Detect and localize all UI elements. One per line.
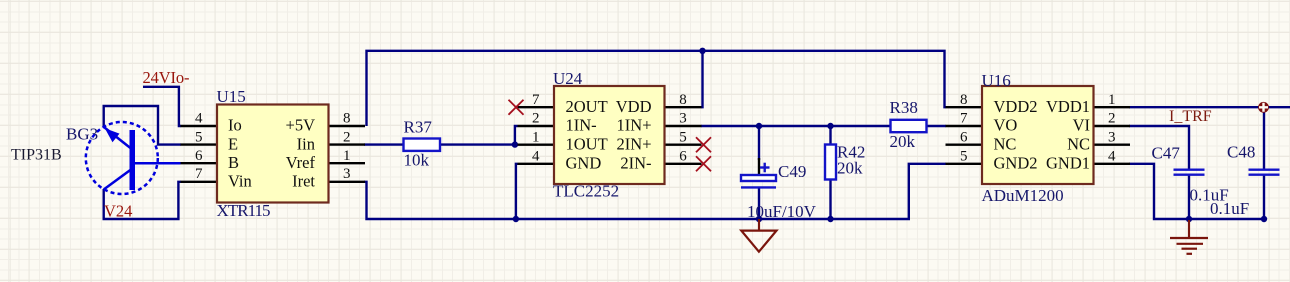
svg-text:2: 2 bbox=[1108, 111, 1116, 127]
svg-text:Vref: Vref bbox=[286, 153, 316, 172]
svg-text:+5V: +5V bbox=[286, 116, 316, 135]
svg-text:2: 2 bbox=[343, 129, 351, 145]
svg-text:10k: 10k bbox=[404, 151, 430, 170]
svg-text:B: B bbox=[228, 153, 239, 172]
svg-text:20k: 20k bbox=[890, 132, 916, 151]
svg-text:1: 1 bbox=[532, 129, 540, 145]
svg-text:6: 6 bbox=[195, 148, 203, 164]
svg-text:GND2: GND2 bbox=[994, 154, 1038, 173]
svg-text:GND: GND bbox=[566, 154, 602, 173]
svg-text:8: 8 bbox=[679, 92, 687, 108]
svg-text:ADuM1200: ADuM1200 bbox=[982, 186, 1064, 205]
svg-text:U15: U15 bbox=[217, 87, 246, 106]
svg-text:I_TRF: I_TRF bbox=[1169, 108, 1212, 125]
svg-text:Vin: Vin bbox=[228, 171, 252, 190]
svg-text:1: 1 bbox=[1108, 92, 1116, 108]
svg-text:VI: VI bbox=[1073, 116, 1090, 135]
svg-text:5: 5 bbox=[679, 129, 687, 145]
svg-text:8: 8 bbox=[960, 92, 968, 108]
svg-text:R37: R37 bbox=[404, 118, 433, 137]
svg-text:R38: R38 bbox=[890, 98, 918, 117]
svg-text:C48: C48 bbox=[1227, 143, 1255, 162]
svg-text:E: E bbox=[228, 134, 238, 153]
svg-text:1: 1 bbox=[343, 148, 351, 164]
svg-text:4: 4 bbox=[195, 111, 203, 127]
svg-text:4: 4 bbox=[1108, 148, 1116, 164]
svg-text:6: 6 bbox=[679, 148, 687, 164]
svg-text:7: 7 bbox=[532, 92, 540, 108]
svg-text:VDD1: VDD1 bbox=[1046, 97, 1090, 116]
svg-text:0.1uF: 0.1uF bbox=[1210, 199, 1249, 218]
svg-text:3: 3 bbox=[679, 111, 687, 127]
svg-text:7: 7 bbox=[960, 111, 968, 127]
svg-text:5: 5 bbox=[195, 129, 203, 145]
svg-text:10uF/10V: 10uF/10V bbox=[747, 202, 817, 221]
svg-text:Iin: Iin bbox=[297, 134, 315, 153]
svg-text:1OUT: 1OUT bbox=[566, 134, 608, 153]
svg-text:VDD2: VDD2 bbox=[994, 97, 1038, 116]
svg-text:5: 5 bbox=[960, 148, 968, 164]
svg-text:VDD: VDD bbox=[616, 97, 652, 116]
svg-text:NC: NC bbox=[994, 134, 1017, 153]
svg-text:GND1: GND1 bbox=[1046, 154, 1090, 173]
svg-text:U16: U16 bbox=[982, 71, 1011, 90]
svg-text:20k: 20k bbox=[837, 159, 863, 178]
svg-text:TLC2252: TLC2252 bbox=[553, 182, 619, 201]
svg-text:8: 8 bbox=[343, 111, 351, 127]
svg-text:Io: Io bbox=[228, 116, 242, 135]
svg-text:3: 3 bbox=[1108, 129, 1116, 145]
svg-text:NC: NC bbox=[1067, 134, 1090, 153]
svg-text:BG3: BG3 bbox=[66, 125, 98, 144]
svg-text:1IN+: 1IN+ bbox=[617, 116, 652, 135]
svg-text:2IN+: 2IN+ bbox=[617, 134, 652, 153]
svg-text:1IN-: 1IN- bbox=[566, 116, 597, 135]
svg-text:C47: C47 bbox=[1152, 144, 1181, 163]
svg-text:C49: C49 bbox=[778, 162, 806, 181]
svg-text:2: 2 bbox=[532, 111, 540, 127]
svg-text:TIP31B: TIP31B bbox=[11, 147, 62, 164]
svg-text:3: 3 bbox=[343, 166, 351, 182]
svg-text:Iret: Iret bbox=[292, 171, 315, 190]
svg-text:V24: V24 bbox=[104, 202, 132, 221]
svg-text:4: 4 bbox=[532, 148, 540, 164]
svg-text:2IN-: 2IN- bbox=[620, 154, 651, 173]
svg-text:7: 7 bbox=[195, 166, 203, 182]
svg-text:2OUT: 2OUT bbox=[566, 97, 608, 116]
svg-text:6: 6 bbox=[960, 129, 968, 145]
svg-text:XTR115: XTR115 bbox=[217, 201, 271, 220]
svg-text:VO: VO bbox=[994, 116, 1018, 135]
svg-text:24VIo-: 24VIo- bbox=[143, 68, 190, 87]
svg-text:U24: U24 bbox=[553, 69, 583, 88]
